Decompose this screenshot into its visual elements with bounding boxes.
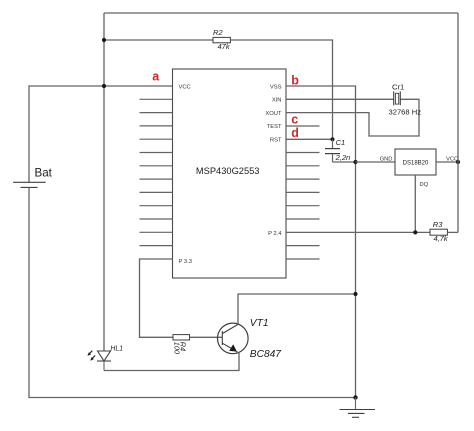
node junction RST/R2/C1 [330,137,334,141]
wire C1 bottom to GND row [333,161,356,163]
wire left pin stubs [140,99,173,245]
svg-text:HL1: HL1 [110,346,123,353]
svg-text:TEST: TEST [267,124,282,130]
svg-text:C1: C1 [336,138,346,147]
svg-text:Cr1: Cr1 [392,83,404,92]
svg-text:VCC: VCC [179,84,191,90]
svg-text:47k: 47k [218,42,231,51]
LED HL1 emission arrows [87,351,95,361]
svg-text:d: d [291,126,299,140]
svg-text:VT1: VT1 [250,318,269,329]
svg-text:R3: R3 [433,220,443,229]
svg-text:b: b [291,73,299,87]
battery Bat top wire [29,86,173,182]
wire GND row to DS18B20 [356,161,396,163]
wire DQ drop [414,175,416,232]
svg-text:RST: RST [270,138,282,144]
crystal Cr1 [394,91,401,105]
svg-text:4,7k: 4,7k [434,234,449,243]
wire RST row [286,138,333,140]
svg-text:BC847: BC847 [250,349,281,360]
wire R2 row right + drop to RST [230,40,332,139]
node junction bottom rail / ground [353,395,357,399]
wire R4 to base [190,336,223,338]
wire battery minus to bottom rail [29,187,356,397]
wire top VCC rail [104,12,458,14]
capacitor C1 [325,139,340,162]
svg-text:P 3.3: P 3.3 [179,259,192,265]
svg-text:100: 100 [173,342,182,355]
svg-text:a: a [152,70,160,84]
node junction R2 left [102,38,106,42]
svg-text:VSS: VSS [270,84,282,90]
svg-text:2,2n: 2,2n [335,153,351,162]
svg-text:DQ: DQ [420,182,429,188]
node junction VCC row [102,84,106,88]
svg-text:c: c [291,113,298,127]
resistor R2 [213,37,230,42]
svg-text:Bat: Bat [35,167,53,180]
wire R3 to rail [447,231,458,233]
wire R2 row left [104,39,213,41]
node junction DQ/P2.4 [413,230,417,234]
transistor Q1 VT1 [218,323,249,354]
wire collector up and to ground net [238,294,356,324]
svg-text:XOUT: XOUT [265,111,282,117]
wire P3.3 down to R4 [140,259,174,337]
node junction GND row [353,160,357,164]
op-amp U1 MSP430G2553 body [173,69,287,278]
battery Bat symbol [13,182,46,187]
wire P2.4 row [286,231,430,233]
wire VSS to ground net vertical [286,86,356,398]
resistor R3 [430,229,447,235]
svg-text:MSP430G2553: MSP430G2553 [196,166,260,176]
LED HL1 [97,351,111,371]
node junction VCC rail [456,160,460,164]
svg-text:32768 Hz: 32768 Hz [389,107,422,116]
svg-text:R2: R2 [213,28,223,37]
wire XOUT loop to crystal right [286,99,419,136]
svg-text:XIN: XIN [272,98,282,104]
wire DS18B20 VCC to rail [436,161,458,163]
svg-text:P 2.4: P 2.4 [268,231,282,237]
wire emitter down to LED row [104,351,239,370]
transistor VT1 emitter arrow [229,344,237,351]
op-amp U2 DS18B20 body [395,149,436,175]
wire right pin stubs [286,126,320,259]
wire right VCC rail vertical [457,13,459,232]
ground symbol [340,398,376,418]
wire left vertical (VCC to LED anode) [103,13,105,351]
svg-text:GND: GND [380,157,393,163]
svg-text:DS18B20: DS18B20 [403,160,429,166]
resistor R4 [173,335,190,340]
wire XIN to crystal [286,98,394,100]
node junction collector/ground net [353,292,357,296]
